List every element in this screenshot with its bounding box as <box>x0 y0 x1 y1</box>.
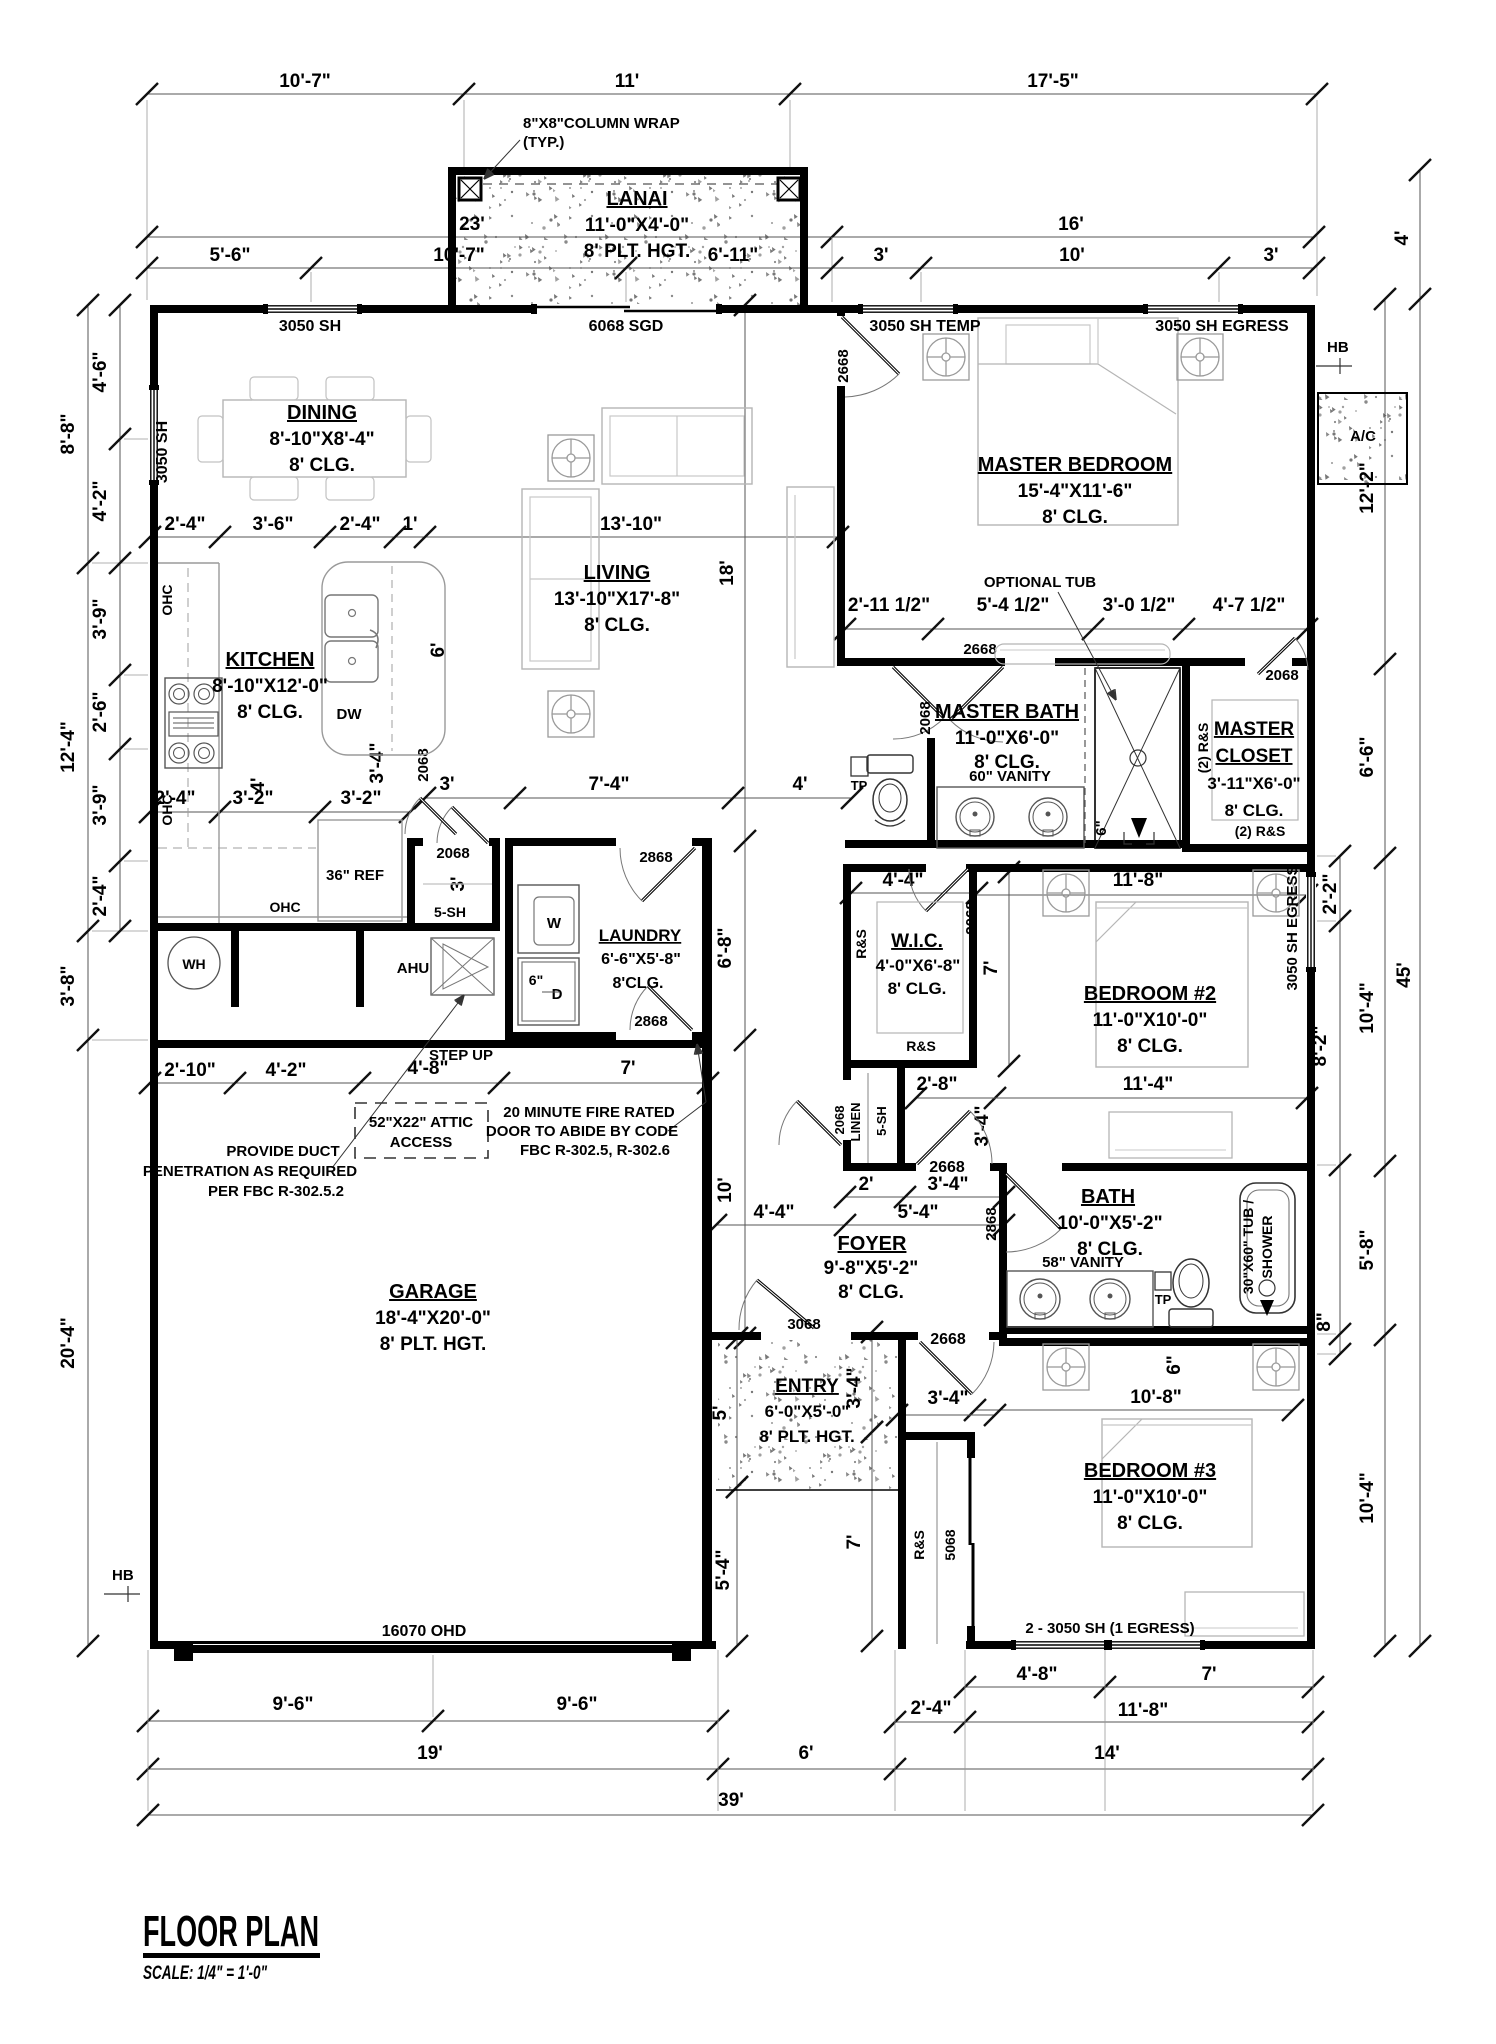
svg-text:11'-4": 11'-4" <box>1123 1074 1174 1095</box>
svg-text:D: D <box>552 986 563 1003</box>
svg-text:2'-4": 2'-4" <box>90 876 111 917</box>
entry east wall <box>898 1340 906 1444</box>
bottom dim row C y1769 <box>148 1768 1313 1770</box>
master bath dim row y629 <box>845 628 1307 630</box>
svg-text:3'-9": 3'-9" <box>90 599 111 640</box>
window 3050 SH left wall <box>149 390 159 480</box>
svg-text:CLOSET: CLOSET <box>1215 746 1292 767</box>
svg-text:LIVING: LIVING <box>584 562 651 584</box>
attic access dashed box <box>355 1103 488 1158</box>
svg-text:11'-8": 11'-8" <box>1118 1700 1169 1721</box>
svg-text:8' CLG.: 8' CLG. <box>1077 1239 1143 1260</box>
kitchen counters <box>218 563 220 923</box>
range <box>165 678 222 768</box>
svg-text:20'-4": 20'-4" <box>58 1317 79 1369</box>
bedroom2 bed <box>1096 902 1248 1067</box>
svg-text:2 - 3050 SH (1 EGRESS): 2 - 3050 SH (1 EGRESS) <box>1025 1620 1194 1637</box>
door entry 3068 <box>757 1280 814 1328</box>
svg-text:12'-2": 12'-2" <box>1357 462 1378 514</box>
svg-text:10': 10' <box>715 1177 736 1203</box>
dining table <box>223 400 406 477</box>
dimension string top row 3 <box>147 267 1314 269</box>
optional tub outline <box>995 644 1170 664</box>
svg-text:11': 11' <box>615 71 640 92</box>
svg-text:12'-4": 12'-4" <box>58 721 79 773</box>
svg-text:PROVIDE DUCT: PROVIDE DUCT <box>226 1143 339 1160</box>
AHU unit <box>431 938 494 995</box>
master bedroom west wall <box>837 390 845 666</box>
svg-text:9'-8"X5'-2": 9'-8"X5'-2" <box>824 1258 919 1279</box>
svg-text:2068: 2068 <box>917 701 934 734</box>
svg-text:2'-4": 2'-4" <box>340 514 381 535</box>
kitchen island <box>322 562 445 755</box>
svg-text:6'-11": 6'-11" <box>708 245 759 266</box>
kitchen/living dim row y537 <box>150 536 838 538</box>
svg-text:4'-2": 4'-2" <box>90 481 111 522</box>
laundry walls <box>505 846 513 1040</box>
svg-text:GARAGE: GARAGE <box>389 1281 477 1303</box>
linen east wall <box>897 1068 905 1163</box>
svg-text:4': 4' <box>792 774 807 795</box>
svg-text:FBC R-302.5, R-302.6: FBC R-302.5, R-302.6 <box>520 1142 670 1159</box>
svg-text:3050 SH: 3050 SH <box>279 318 341 335</box>
right outer dimension column x1420 <box>1419 170 1421 1646</box>
hall dim row y798 <box>425 797 852 799</box>
right dimension column A x1340 <box>1339 856 1341 1354</box>
svg-text:8' CLG.: 8' CLG. <box>1225 801 1284 820</box>
svg-text:18': 18' <box>717 560 738 586</box>
svg-text:A/C: A/C <box>1350 428 1376 445</box>
bottom-middle vertical dims <box>736 1338 738 1487</box>
WIC / bedroom2 north wall <box>843 864 926 872</box>
svg-text:2668: 2668 <box>835 349 852 382</box>
svg-text:10'-7": 10'-7" <box>433 245 485 266</box>
hall south wall at linen <box>843 1163 916 1171</box>
entry slab texture <box>718 1340 898 1490</box>
svg-text:2'-6": 2'-6" <box>90 692 111 733</box>
svg-text:2'-4": 2'-4" <box>911 1698 952 1719</box>
svg-text:BEDROOM #2: BEDROOM #2 <box>1084 983 1216 1005</box>
pantry walls <box>407 846 415 923</box>
svg-text:DOOR TO ABIDE BY CODE: DOOR TO ABIDE BY CODE <box>486 1123 678 1140</box>
svg-text:DINING: DINING <box>287 402 357 424</box>
garage door 16070 OHD <box>174 1641 193 1661</box>
pantry shelf line <box>423 883 492 885</box>
svg-text:(2) R&S: (2) R&S <box>1235 823 1286 839</box>
svg-text:10'-7": 10'-7" <box>279 71 331 92</box>
svg-text:8' CLG.: 8' CLG. <box>888 979 947 998</box>
svg-text:10': 10' <box>1059 245 1085 266</box>
bedroom3 bottom wall <box>966 1641 1315 1649</box>
svg-text:6": 6" <box>529 972 543 988</box>
svg-text:4'-6": 4'-6" <box>90 352 111 393</box>
utility partition stubs <box>231 931 239 1007</box>
svg-text:STEP UP: STEP UP <box>429 1047 493 1064</box>
svg-text:11'-0"X10'-0": 11'-0"X10'-0" <box>1093 1010 1208 1031</box>
svg-text:2068: 2068 <box>963 901 980 934</box>
door bedroom3 2668 <box>920 1342 972 1394</box>
svg-text:8' CLG.: 8' CLG. <box>1117 1513 1183 1534</box>
svg-text:60" VANITY: 60" VANITY <box>969 768 1051 785</box>
svg-text:8'-10"X12'-0": 8'-10"X12'-0" <box>212 676 328 697</box>
svg-text:4'-0"X6'-8": 4'-0"X6'-8" <box>876 956 961 975</box>
svg-text:8'CLG.: 8'CLG. <box>613 975 664 992</box>
svg-text:HB: HB <box>112 1567 134 1584</box>
svg-text:6068 SGD: 6068 SGD <box>589 318 664 335</box>
svg-text:3'-11"X6'-0": 3'-11"X6'-0" <box>1207 774 1300 793</box>
window 3050 SH top wall <box>268 304 357 314</box>
door linen 2068 <box>797 1101 841 1145</box>
svg-text:KITCHEN: KITCHEN <box>226 649 315 671</box>
svg-text:6'-0"X5'-0": 6'-0"X5'-0" <box>765 1402 850 1421</box>
svg-text:2668: 2668 <box>963 641 996 658</box>
living fan squares <box>548 435 594 481</box>
svg-text:3050 SH: 3050 SH <box>154 421 171 483</box>
svg-text:R&S: R&S <box>853 929 869 959</box>
WIC / bedroom2 dim row y893 <box>851 892 977 894</box>
lanai walls <box>448 167 808 175</box>
svg-text:ACCESS: ACCESS <box>390 1134 453 1151</box>
svg-text:7': 7' <box>844 1534 865 1549</box>
svg-text:6': 6' <box>428 642 449 657</box>
svg-text:4'-7 1/2": 4'-7 1/2" <box>1213 595 1286 616</box>
lanai column right <box>778 178 800 200</box>
living TV console <box>787 487 834 667</box>
bath south wall <box>999 1326 1307 1334</box>
svg-text:3': 3' <box>1263 245 1278 266</box>
kitchen south wall <box>158 923 500 931</box>
master vanity <box>937 787 1084 848</box>
master nightstand fans <box>923 334 969 380</box>
svg-text:11'-0"X6'-0": 11'-0"X6'-0" <box>955 728 1059 749</box>
svg-text:R&S: R&S <box>911 1530 927 1560</box>
living loveseat <box>602 408 752 484</box>
svg-text:23': 23' <box>459 214 485 235</box>
svg-text:4'-4": 4'-4" <box>883 870 924 891</box>
WIC 7ft vertical dim <box>1008 872 1010 1066</box>
master toilet room east wall <box>927 738 935 848</box>
svg-text:AHU: AHU <box>397 960 430 977</box>
master shower <box>1095 668 1180 848</box>
left inner dimension column <box>119 305 121 931</box>
bath2 tub/shower <box>1240 1183 1295 1313</box>
garage bottom wall <box>150 1641 716 1649</box>
svg-text:1': 1' <box>402 514 417 535</box>
svg-text:3': 3' <box>873 245 888 266</box>
master suite south wall <box>845 658 1005 666</box>
lanai column left <box>459 178 481 200</box>
svg-text:8' CLG.: 8' CLG. <box>1042 507 1108 528</box>
svg-text:10'-0"X5'-2": 10'-0"X5'-2" <box>1057 1213 1162 1234</box>
svg-text:W.I.C.: W.I.C. <box>891 931 943 952</box>
svg-text:3': 3' <box>439 774 454 795</box>
svg-text:BATH: BATH <box>1081 1186 1135 1208</box>
bedroom2 dresser <box>1109 1112 1232 1158</box>
svg-text:8' CLG.: 8' CLG. <box>584 615 650 636</box>
svg-text:BEDROOM #3: BEDROOM #3 <box>1084 1460 1216 1482</box>
fridge <box>318 820 402 921</box>
svg-text:3'-2": 3'-2" <box>341 788 382 809</box>
svg-text:(TYP.): (TYP.) <box>523 134 564 151</box>
svg-text:3068: 3068 <box>787 1316 820 1333</box>
column wrap leader <box>484 140 520 179</box>
svg-text:11'-0"X4'-0": 11'-0"X4'-0" <box>585 215 689 236</box>
bath west wall <box>999 1171 1007 1346</box>
svg-text:20 MINUTE FIRE RATED: 20 MINUTE FIRE RATED <box>503 1104 675 1121</box>
svg-text:6'-6"X5'-8": 6'-6"X5'-8" <box>601 951 681 968</box>
window 3050 SH EGRESS <box>1148 304 1238 314</box>
bath2 vanity <box>1007 1271 1153 1327</box>
svg-text:11'-8": 11'-8" <box>1113 870 1164 891</box>
svg-text:5'-8": 5'-8" <box>1357 1230 1378 1271</box>
svg-text:2868: 2868 <box>983 1207 1000 1240</box>
center vertical dimension x745 <box>744 305 746 1338</box>
window 3050 SH TEMP <box>863 304 953 314</box>
svg-text:10'-8": 10'-8" <box>1130 1387 1182 1408</box>
optional tub leader <box>1058 592 1116 700</box>
svg-text:5'-6": 5'-6" <box>210 245 251 266</box>
svg-text:8": 8" <box>1314 1312 1335 1332</box>
svg-text:39': 39' <box>718 1790 744 1811</box>
svg-text:15'-4"X11'-6": 15'-4"X11'-6" <box>1018 481 1133 502</box>
svg-text:3050 SH EGRESS: 3050 SH EGRESS <box>1284 865 1301 990</box>
sliding glass door 6068 SGD <box>537 304 716 314</box>
door living-master 2668 <box>837 310 845 316</box>
master bath south wall <box>845 840 1182 848</box>
svg-text:5': 5' <box>710 1405 731 1420</box>
duct note leader <box>332 995 464 1168</box>
bath2 TP holder <box>1155 1272 1171 1290</box>
svg-text:8' CLG.: 8' CLG. <box>838 1282 904 1303</box>
svg-text:8'-10"X8'-4": 8'-10"X8'-4" <box>269 429 374 450</box>
svg-text:DW: DW <box>337 706 363 723</box>
svg-text:3050 SH EGRESS: 3050 SH EGRESS <box>1155 318 1289 335</box>
svg-text:4'-8": 4'-8" <box>1017 1664 1058 1685</box>
svg-text:8'-8": 8'-8" <box>58 414 79 455</box>
svg-text:ENTRY: ENTRY <box>775 1376 839 1397</box>
svg-text:R&S: R&S <box>906 1038 936 1054</box>
WIC south wall <box>843 1060 977 1068</box>
bottom dim row A y1687 <box>965 1686 1313 1688</box>
window 3050 SH EGRESS bedroom2 right wall <box>1306 877 1316 967</box>
svg-text:45': 45' <box>1394 962 1415 988</box>
svg-text:MASTER BATH: MASTER BATH <box>935 701 1079 723</box>
svg-text:OPTIONAL TUB: OPTIONAL TUB <box>984 574 1096 591</box>
bottom dim row D y1815 <box>148 1814 1313 1816</box>
bedroom3 dim row <box>975 1409 1293 1411</box>
svg-text:3'-0 1/2": 3'-0 1/2" <box>1103 595 1176 616</box>
svg-text:8' CLG.: 8' CLG. <box>1117 1036 1183 1057</box>
laundry washer dryer <box>518 885 579 953</box>
svg-text:5068: 5068 <box>942 1529 958 1560</box>
door master closet 2068 <box>1258 638 1295 674</box>
svg-text:SHOWER: SHOWER <box>1259 1216 1275 1279</box>
svg-text:8"X8"COLUMN WRAP: 8"X8"COLUMN WRAP <box>523 115 680 132</box>
svg-text:8' CLG.: 8' CLG. <box>237 702 303 723</box>
svg-text:7': 7' <box>1201 1664 1216 1685</box>
svg-text:6'-8": 6'-8" <box>715 928 736 969</box>
svg-text:5'-4 1/2": 5'-4 1/2" <box>977 595 1050 616</box>
garage top wall <box>158 1040 712 1048</box>
svg-text:5'-4": 5'-4" <box>713 1550 734 1591</box>
svg-text:52"X22" ATTIC: 52"X22" ATTIC <box>369 1114 473 1131</box>
svg-text:14': 14' <box>1094 1743 1120 1764</box>
svg-text:5'-4": 5'-4" <box>898 1202 939 1223</box>
svg-text:OHC: OHC <box>159 584 175 615</box>
svg-text:3'-6": 3'-6" <box>253 514 294 535</box>
bedroom2 south / bath north wall <box>990 1163 1007 1171</box>
bedroom3 closet walls <box>898 1432 975 1440</box>
svg-text:2068: 2068 <box>832 1106 847 1135</box>
svg-text:2'-2": 2'-2" <box>1320 874 1341 915</box>
svg-text:PENETRATION AS REQUIRED: PENETRATION AS REQUIRED <box>143 1163 357 1180</box>
svg-text:16070 OHD: 16070 OHD <box>382 1623 467 1640</box>
svg-text:4'-4": 4'-4" <box>754 1202 795 1223</box>
svg-text:3'-4": 3'-4" <box>972 1106 993 1147</box>
master bed <box>978 318 1178 525</box>
svg-text:3050 SH TEMP: 3050 SH TEMP <box>869 318 980 335</box>
svg-text:10'-4": 10'-4" <box>1357 1472 1378 1524</box>
svg-text:9'-6": 9'-6" <box>557 1694 598 1715</box>
svg-text:2668: 2668 <box>929 1159 965 1176</box>
svg-text:TP: TP <box>1155 1292 1172 1307</box>
svg-text:5-SH: 5-SH <box>874 1106 889 1136</box>
dimension string top row 1 <box>147 93 1317 95</box>
svg-text:13'-10"X17'-8": 13'-10"X17'-8" <box>554 589 680 610</box>
svg-text:9'-6": 9'-6" <box>273 1694 314 1715</box>
master bath toilet <box>867 755 913 773</box>
svg-text:4': 4' <box>248 777 269 792</box>
master closet west wall <box>1182 666 1190 852</box>
svg-text:FLOOR PLAN: FLOOR PLAN <box>143 1907 319 1956</box>
door WIC 2068 <box>926 869 968 911</box>
bath2 toilet <box>1173 1259 1209 1307</box>
WIC east wall <box>969 872 977 1066</box>
svg-text:6": 6" <box>1093 820 1110 835</box>
svg-text:8' PLT. HGT.: 8' PLT. HGT. <box>759 1427 854 1446</box>
bedroom3 bed <box>1102 1419 1252 1547</box>
svg-text:2068: 2068 <box>1265 667 1298 684</box>
svg-text:30"X60" TUB /: 30"X60" TUB / <box>1240 1200 1256 1294</box>
door laundry south 2868 <box>648 986 692 1030</box>
svg-text:2868: 2868 <box>639 849 672 866</box>
hall dim rows near linen <box>916 1097 995 1099</box>
svg-text:2'-8": 2'-8" <box>917 1074 958 1095</box>
svg-text:19': 19' <box>417 1743 443 1764</box>
svg-text:MASTER: MASTER <box>1214 719 1295 740</box>
svg-text:7'-4": 7'-4" <box>589 774 630 795</box>
door pantry 2068 <box>452 807 488 843</box>
svg-text:8' PLT. HGT.: 8' PLT. HGT. <box>584 241 691 262</box>
svg-text:TP: TP <box>851 778 868 793</box>
svg-text:6': 6' <box>798 1743 813 1764</box>
svg-text:SCALE: 1/4" = 1'-0": SCALE: 1/4" = 1'-0" <box>143 1963 268 1984</box>
left outer dimension column <box>87 305 89 1646</box>
svg-text:7': 7' <box>981 960 1002 975</box>
lanai slab texture <box>456 175 800 305</box>
svg-text:11'-0"X10'-0": 11'-0"X10'-0" <box>1093 1487 1208 1508</box>
svg-text:2'-11 1/2": 2'-11 1/2" <box>848 595 930 616</box>
door master bath 2668 <box>950 667 1003 720</box>
svg-text:LINEN: LINEN <box>848 1103 863 1142</box>
door bath 2868 <box>1006 1174 1061 1229</box>
svg-text:17'-5": 17'-5" <box>1027 71 1079 92</box>
WIC shelves <box>877 902 963 1033</box>
svg-text:W: W <box>547 915 562 932</box>
svg-text:LANAI: LANAI <box>606 188 667 210</box>
svg-text:2'-4": 2'-4" <box>165 514 206 535</box>
master TP holder <box>851 757 868 776</box>
foyer south wall <box>712 1332 761 1340</box>
closet slider panels <box>969 1458 972 1545</box>
svg-text:PER FBC R-302.5.2: PER FBC R-302.5.2 <box>208 1183 344 1200</box>
svg-text:6": 6" <box>1164 1355 1185 1375</box>
dimension string top row 2 <box>147 236 1314 238</box>
bedroom3 north wall <box>1007 1338 1311 1346</box>
svg-text:7': 7' <box>620 1058 635 1079</box>
living sofa <box>522 489 599 669</box>
svg-text:13'-10": 13'-10" <box>600 514 662 535</box>
svg-text:WH: WH <box>182 956 205 972</box>
svg-text:2068: 2068 <box>436 845 469 862</box>
svg-text:3'-4": 3'-4" <box>928 1388 969 1409</box>
svg-text:4': 4' <box>1392 230 1413 245</box>
svg-text:36" REF: 36" REF <box>326 867 384 884</box>
svg-text:10'-4": 10'-4" <box>1357 982 1378 1034</box>
svg-text:8' CLG.: 8' CLG. <box>289 455 355 476</box>
A/C pad texture <box>1318 393 1407 484</box>
island sink <box>325 595 378 637</box>
kitchen inner dim row y812 <box>150 811 410 813</box>
bottom dim row B y1721 <box>148 1720 718 1722</box>
foyer dim rows <box>845 1196 1004 1198</box>
svg-text:3'-9": 3'-9" <box>90 785 111 826</box>
door bedroom2 2668 <box>917 1111 970 1164</box>
svg-text:16': 16' <box>1058 214 1084 235</box>
svg-text:2': 2' <box>858 1174 873 1195</box>
A/C pad outline <box>1318 393 1407 484</box>
door master toilet 2068 <box>893 667 944 718</box>
door kitchen hall 2068 <box>420 798 456 834</box>
svg-text:4'-2": 4'-2" <box>266 1060 307 1081</box>
master closet south wall <box>1182 844 1307 852</box>
svg-text:FOYER: FOYER <box>838 1233 907 1255</box>
svg-text:5-SH: 5-SH <box>434 904 466 920</box>
svg-text:OHC: OHC <box>159 794 175 825</box>
WH circle <box>168 937 220 989</box>
svg-text:8' PLT. HGT.: 8' PLT. HGT. <box>380 1334 487 1355</box>
right dimension column B x1385 <box>1384 299 1386 1646</box>
fire door note leader <box>668 1102 706 1131</box>
master closet shelves <box>1212 700 1298 820</box>
hall east wall <box>843 872 851 1080</box>
garage right / hall west wall <box>702 838 712 1649</box>
svg-text:2668: 2668 <box>930 1331 966 1348</box>
exterior top wall <box>150 305 1315 313</box>
door laundry north 2868 <box>642 848 695 901</box>
entry slab edge <box>716 1489 898 1491</box>
exterior left wall <box>150 305 158 1649</box>
bedroom3 dresser <box>1185 1592 1304 1636</box>
svg-text:6'-6": 6'-6" <box>1357 737 1378 778</box>
svg-text:(2) R&S: (2) R&S <box>1195 723 1211 774</box>
garage top dim row y1083 <box>150 1082 708 1084</box>
linen shelf line <box>867 1073 869 1163</box>
svg-text:3'-4": 3'-4" <box>367 743 388 784</box>
svg-text:3'-4": 3'-4" <box>928 1174 969 1195</box>
svg-text:2868: 2868 <box>634 1013 667 1030</box>
bedroom3 bottom windows 2-3050 SH <box>1016 1640 1104 1650</box>
